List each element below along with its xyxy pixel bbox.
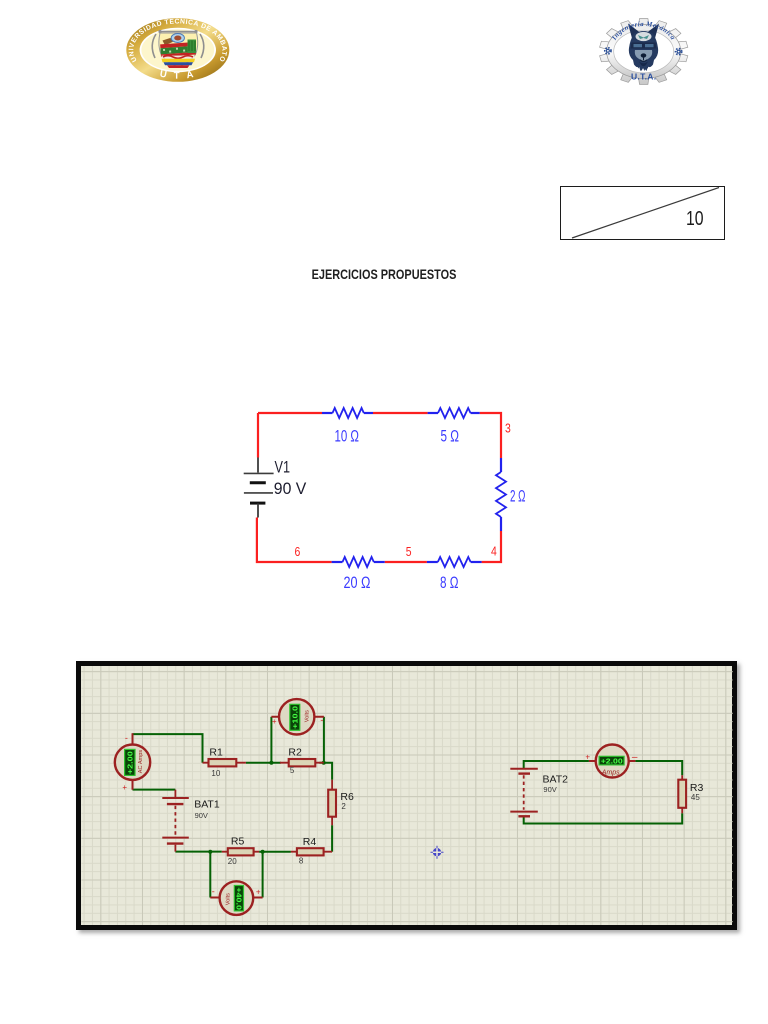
wolf head <box>628 24 659 72</box>
svg-text:20 Ω: 20 Ω <box>344 573 371 592</box>
proteus simulation screenshot frame <box>76 661 737 930</box>
wire R2 right to R6 top <box>319 763 332 780</box>
wire BAT2 to ammeter2 <box>523 761 588 769</box>
svg-text:90V: 90V <box>194 811 207 820</box>
wire voltmeter2 right branch <box>261 852 263 898</box>
resistor 10 ohm <box>322 412 333 414</box>
svg-text:–: – <box>631 752 637 763</box>
resistor 8 ohm <box>427 561 438 563</box>
svg-text:U.T.A.: U.T.A. <box>631 72 656 82</box>
wire left-top segment <box>257 413 259 458</box>
resistor R1 <box>202 762 245 764</box>
svg-text:+: + <box>585 753 590 762</box>
wire top-middle segment <box>373 412 428 414</box>
svg-text:V1: V1 <box>275 458 291 477</box>
svg-text:+: + <box>122 783 127 792</box>
svg-text:BAT2: BAT2 <box>542 774 568 786</box>
wire R1 to R2 <box>245 762 280 764</box>
svg-text:5: 5 <box>406 544 412 559</box>
svg-text:+2.00: +2.00 <box>600 757 622 766</box>
junction node R5 left <box>208 850 212 854</box>
junction node R2 right <box>321 761 325 765</box>
resistor R5 <box>221 851 258 853</box>
svg-text:+: + <box>271 717 276 726</box>
junction node R1-R2 <box>269 761 273 765</box>
wire voltmeter2 left branch <box>209 852 211 898</box>
svg-text:90 V: 90 V <box>274 479 307 498</box>
small blue gears <box>605 48 682 55</box>
wire ammeter1 minus to R1 <box>132 734 202 763</box>
svg-text:AC Amps: AC Amps <box>137 750 143 774</box>
svg-text:+40.0: +40.0 <box>234 888 243 911</box>
left logo: Universidad Tecnica de Ambato seal <box>124 14 234 88</box>
resistor 5 ohm <box>428 412 438 414</box>
svg-text:5: 5 <box>289 766 294 775</box>
svg-text:-: - <box>124 733 127 743</box>
voltmeter VM1 (Volts +10.0) <box>271 716 324 718</box>
svg-text:Amps: Amps <box>600 770 619 777</box>
svg-text:8: 8 <box>298 857 303 866</box>
svg-text:R5: R5 <box>230 836 244 848</box>
svg-text:-: - <box>211 887 214 897</box>
svg-text:Volts: Volts <box>304 710 310 722</box>
resistor R4 <box>290 851 331 853</box>
svg-text:10 Ω: 10 Ω <box>335 427 360 446</box>
wire BAT1 to node R5 <box>175 851 221 853</box>
svg-text:+2.00: +2.00 <box>125 751 134 774</box>
wire R6 bottom to R4 corner <box>331 825 333 852</box>
wire right-bottom segment <box>482 531 501 562</box>
right logo: Ingenieria Mecanica UTA gear with wolf <box>590 8 698 94</box>
svg-text:90V: 90V <box>543 785 556 794</box>
svg-text:R4: R4 <box>302 836 316 848</box>
svg-text:R2: R2 <box>288 747 302 759</box>
svg-text:2 Ω: 2 Ω <box>510 487 526 506</box>
svg-text:Volts: Volts <box>225 893 231 905</box>
circuit schematic (exercise) <box>230 395 540 610</box>
svg-text:R1: R1 <box>209 747 223 759</box>
battery BAT1 <box>174 790 176 797</box>
wire ammeter2 to R3 <box>635 761 682 775</box>
resistor R6 <box>331 780 333 826</box>
wire voltmeter1 right branch <box>322 717 324 763</box>
voltmeter VM2 (Volts +40.0) <box>210 897 262 899</box>
resistor 20 ohm <box>332 561 343 563</box>
ammeter AM1 (AC Amps) <box>131 733 133 790</box>
title EJERCICIOS PROPUESTOS <box>312 266 457 282</box>
svg-text:BAT1: BAT1 <box>194 799 220 811</box>
wire R5 to R4 <box>259 851 291 853</box>
score box <box>560 186 725 240</box>
svg-text:+: + <box>255 888 260 897</box>
wire bottom-middle segment <box>385 561 427 563</box>
svg-text:8 Ω: 8 Ω <box>440 573 459 592</box>
wire top-right segment <box>480 413 501 458</box>
svg-text:-: - <box>320 715 323 725</box>
svg-text:5 Ω: 5 Ω <box>441 427 460 446</box>
wire top-left segment <box>258 412 322 414</box>
ammeter AM2 (Amps +2.00) <box>588 760 635 762</box>
resistor 2 ohm <box>500 458 502 472</box>
svg-text:3: 3 <box>505 421 511 436</box>
junction node R5 right <box>260 850 264 854</box>
resistor R3 <box>681 775 683 813</box>
wire bottom-left segment <box>257 518 332 563</box>
svg-text:45: 45 <box>690 793 699 802</box>
svg-text:20: 20 <box>227 857 236 866</box>
resistor R2 <box>279 762 323 764</box>
origin marker <box>430 846 443 859</box>
svg-text:4: 4 <box>491 544 497 559</box>
svg-text:2: 2 <box>341 802 346 811</box>
svg-text:6: 6 <box>295 544 301 559</box>
wire voltmeter1 left branch <box>270 717 272 763</box>
battery BAT2 <box>510 768 538 770</box>
svg-text:10: 10 <box>211 769 220 778</box>
gear ring <box>600 19 688 85</box>
wire R3 bottom to BAT2 bottom <box>523 813 682 823</box>
battery V1 <box>257 458 259 473</box>
svg-text:+10.0: +10.0 <box>290 706 299 729</box>
wire ammeter1 plus to BAT1 <box>132 789 175 791</box>
